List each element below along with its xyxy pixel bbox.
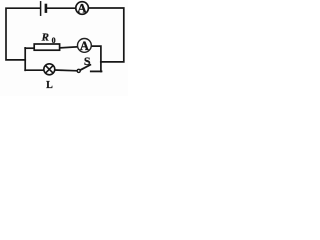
svg-text:R: R xyxy=(41,31,49,43)
svg-text:0: 0 xyxy=(52,36,56,45)
svg-text:L: L xyxy=(46,80,53,91)
svg-text:S: S xyxy=(84,54,91,68)
svg-text:A: A xyxy=(77,0,87,15)
svg-text:A: A xyxy=(80,39,89,53)
